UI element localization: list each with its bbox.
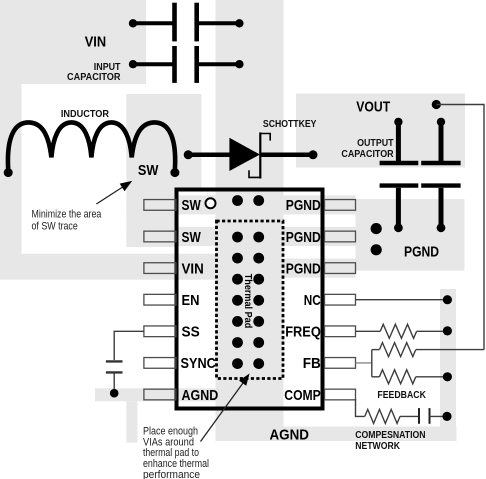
copper pour AGND vertical connector — [126, 401, 137, 442]
svg-text:SW: SW — [182, 229, 202, 246]
resistor R2 FB upper — [372, 349, 380, 351]
copper pour PGND trace band 1 — [284, 195, 356, 214]
copper pour SW block left tall — [126, 94, 174, 247]
svg-text:SW: SW — [138, 162, 159, 179]
copper pour PGND plane — [356, 199, 465, 271]
svg-text:FB: FB — [303, 355, 321, 372]
svg-text:SYNC: SYNC — [181, 355, 216, 372]
svg-text:AGND: AGND — [270, 427, 310, 444]
inductor left end node dot — [4, 168, 13, 177]
via dots row 3 — [232, 274, 243, 285]
resistor R1 FREQ — [356, 330, 381, 332]
via dots row 4 — [232, 295, 243, 306]
diode D1 schottky — [229, 138, 260, 171]
svg-text:AGND: AGND — [182, 387, 219, 404]
copper pour center column — [216, 0, 284, 411]
svg-text:NETWORK: NETWORK — [355, 440, 400, 452]
copper pour SW2 trace band — [126, 227, 215, 246]
copper pour PGND trace band 3 — [284, 259, 356, 278]
svg-text:Minimize the area: Minimize the area — [32, 209, 102, 221]
wire NC to right rail — [356, 299, 448, 301]
thermal pad dashed outline — [217, 221, 284, 379]
copper pour SW1 trace band — [126, 195, 215, 214]
svg-text:NC: NC — [304, 292, 321, 309]
wire SS to capacitor — [114, 331, 144, 360]
svg-text:COMP: COMP — [284, 387, 321, 404]
capacitor C1 input top — [129, 3, 244, 42]
svg-text:VIN: VIN — [182, 260, 204, 277]
pin pad FREQ right — [325, 326, 356, 337]
wire FB junction vertical — [371, 350, 373, 377]
via dots row 2 — [232, 253, 243, 264]
annotation line to thermal pad — [201, 383, 244, 442]
capacitor C6 compensation — [418, 408, 420, 424]
pin pad SYNC left — [144, 358, 176, 369]
svg-text:PGND: PGND — [404, 244, 439, 261]
copper pour VOUT plane — [296, 94, 465, 168]
node VOUT dot — [432, 100, 441, 109]
svg-text:VIN: VIN — [85, 33, 106, 50]
svg-text:SS: SS — [182, 324, 200, 341]
pin pad VIN left — [144, 263, 176, 274]
resistor R3 FB lower — [372, 376, 380, 378]
pin pad AGND left — [144, 389, 176, 400]
svg-text:SW: SW — [182, 197, 202, 214]
svg-text:PGND: PGND — [286, 229, 321, 246]
pin 1 indicator circle — [206, 198, 216, 208]
svg-text:FREQ: FREQ — [285, 324, 321, 341]
copper pour AGND trace strip — [95, 388, 216, 401]
copper pour VIN trace band — [0, 254, 216, 280]
svg-text:CAPACITOR: CAPACITOR — [67, 71, 121, 83]
node NC dot — [443, 295, 452, 304]
node COMP dot — [442, 412, 451, 421]
node FB dot — [443, 372, 452, 381]
op IC U1 body — [177, 190, 323, 409]
pin pad PGND3 right — [325, 263, 356, 274]
wire SW to diode — [184, 150, 193, 159]
capacitor C2 input bottom — [129, 46, 244, 83]
via dots row 5 — [232, 316, 243, 327]
copper pour SW block upper — [126, 94, 201, 188]
svg-text:of SW trace: of SW trace — [32, 221, 78, 233]
pin pad PGND1 right — [325, 200, 356, 211]
capacitor C4 output right — [421, 118, 460, 233]
copper pour VIN plane top-left — [0, 0, 146, 84]
pin pad COMP right — [325, 389, 356, 400]
pin pad FB right — [325, 358, 356, 369]
copper pour left column — [0, 83, 22, 255]
svg-text:PGND: PGND — [286, 197, 321, 214]
pin pad NC right — [325, 294, 356, 305]
svg-text:VOUT: VOUT — [356, 98, 390, 115]
capacitor C3 output left — [380, 118, 419, 233]
svg-text:PGND: PGND — [286, 260, 321, 277]
node AGND dot left — [110, 389, 119, 398]
wire FB stub — [356, 362, 372, 364]
wire VOUT feedback top — [436, 105, 484, 350]
copper pour column below IC — [216, 411, 284, 442]
wire diode to node — [260, 153, 313, 158]
inductor L1 — [8, 122, 175, 169]
pin pad SW2 left — [144, 231, 176, 242]
capacitor C5 soft-start — [106, 360, 123, 362]
pin pad EN left — [144, 294, 176, 305]
svg-text:CAPACITOR: CAPACITOR — [341, 148, 394, 160]
pin pad PGND2 right — [325, 231, 356, 242]
copper pour AGND bottom band — [216, 427, 457, 442]
svg-text:SCHOTTKEY: SCHOTTKEY — [263, 118, 317, 130]
via dots row 0 — [232, 195, 243, 206]
svg-text:FEEDBACK: FEEDBACK — [377, 389, 426, 401]
copper pour right rail band — [440, 289, 456, 441]
via dots row 6 — [232, 337, 243, 348]
wire capacitor to AGND dot — [113, 374, 115, 393]
svg-text:INDUCTOR: INDUCTOR — [61, 108, 109, 120]
via dots row 7 — [232, 358, 243, 369]
pin pad SS left — [144, 326, 176, 337]
pin pad SW1 left — [144, 200, 176, 211]
svg-text:Thermal Pad: Thermal Pad — [242, 274, 253, 329]
annotation arrow to SW — [96, 186, 125, 205]
wire COMP down — [356, 399, 365, 416]
copper pour PGND trace band 2 — [284, 227, 356, 246]
resistor R4 compensation — [365, 409, 400, 423]
via dots row 1 — [232, 232, 243, 243]
node PGND via dots — [371, 223, 382, 234]
svg-text:EN: EN — [182, 292, 200, 309]
inductor right end node dot (SW) — [170, 168, 179, 177]
svg-text:performance: performance — [143, 469, 200, 479]
node FREQ dot — [443, 326, 452, 335]
